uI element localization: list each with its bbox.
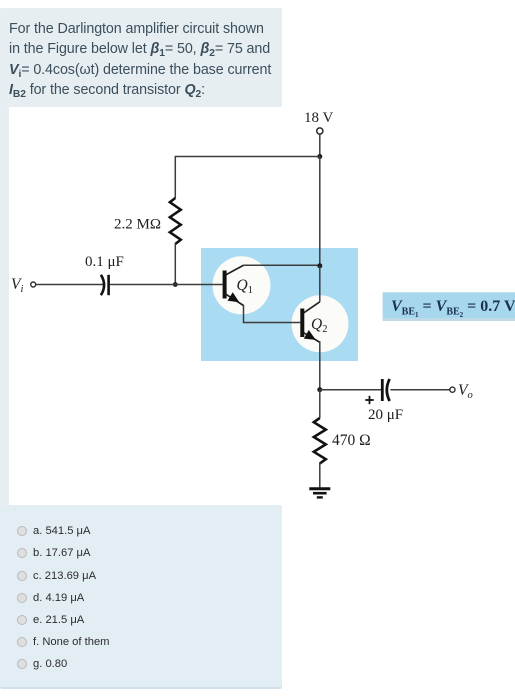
wire resistor R2 to ground xyxy=(319,463,321,489)
power terminal 18V xyxy=(317,128,323,134)
wire Q1 collector to supply rail xyxy=(244,264,320,266)
wire capacitor C1 to Q1 base xyxy=(110,284,223,286)
svg-text:Vi: Vi xyxy=(11,276,23,295)
left margin strip xyxy=(0,107,9,505)
output terminal Vo xyxy=(450,387,455,392)
svg-text:Vo: Vo xyxy=(458,382,473,401)
wire supply rail down xyxy=(319,157,321,266)
transistor Q1 halo xyxy=(213,256,271,314)
darlington highlight box xyxy=(201,248,358,361)
wire node to resistor R2 xyxy=(319,390,321,418)
label + polarity xyxy=(365,396,373,404)
capacitor C2 20 µF xyxy=(382,379,389,401)
answer options box xyxy=(0,505,282,689)
wire resistor bottom to base node xyxy=(174,244,176,285)
capacitor C1 0.1 µF xyxy=(101,275,109,295)
question text box xyxy=(0,8,282,107)
transistor Q2 xyxy=(300,302,320,343)
node emitter junction xyxy=(317,387,322,392)
input terminal Vi xyxy=(31,282,36,287)
ground xyxy=(309,489,330,498)
svg-text:20 μF: 20 μF xyxy=(368,407,403,423)
node base junction xyxy=(173,282,178,287)
svg-text:2.2 MΩ: 2.2 MΩ xyxy=(114,217,161,233)
node collector junction xyxy=(317,263,322,268)
note box VBE xyxy=(383,292,515,318)
resistor R1 2.2 MΩ xyxy=(170,198,181,244)
wire Q2 collector up xyxy=(319,266,321,302)
svg-text:470 Ω: 470 Ω xyxy=(332,432,371,449)
svg-text:18 V: 18 V xyxy=(304,110,333,126)
wire Q2 emitter down xyxy=(319,341,321,390)
wire supply drop xyxy=(319,134,321,156)
wire Q1 emitter to Q2 base xyxy=(244,305,301,323)
transistor Q1 xyxy=(223,265,244,305)
transistor Q2 halo xyxy=(292,295,349,352)
svg-text:0.1 μF: 0.1 μF xyxy=(85,254,124,270)
wire Vi to capacitor C1 xyxy=(36,284,103,286)
node supply junction xyxy=(317,154,322,159)
resistor R2 470 Ω xyxy=(314,418,326,463)
wire capacitor C2 to Vo xyxy=(390,389,449,391)
wire supply to resistor top xyxy=(175,157,319,199)
wire emitter node to capacitor C2 xyxy=(320,389,382,391)
